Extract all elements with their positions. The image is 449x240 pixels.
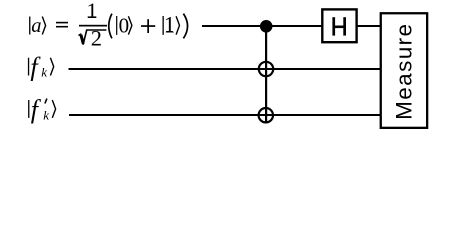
equals sign (56, 22, 68, 24)
svg-text:0: 0 (119, 13, 130, 37)
ket |0> : bar (116, 16, 117, 35)
label ket |f'_k> : bar (28, 100, 29, 118)
svg-text:2: 2 (91, 26, 102, 51)
open paren (109, 14, 112, 39)
wire control vertical line (265, 26, 267, 123)
plus sign (141, 25, 155, 27)
fraction bar (79, 25, 107, 27)
svg-text:a: a (31, 15, 41, 37)
close paren (183, 14, 187, 39)
wire q2 (bottom qubit line) (69, 114, 381, 116)
gate H letter: right stem (343, 17, 346, 35)
svg-text:1: 1 (87, 0, 98, 23)
CNOT target on q1 (259, 62, 273, 76)
gate H box U1 (322, 9, 356, 42)
label ket |f'_k> : prime (45, 99, 47, 104)
measure box (381, 13, 427, 128)
gate H letter: crossbar (334, 26, 344, 29)
wire q1 (middle qubit line) (69, 68, 382, 70)
wire q0 (top qubit line, label-to-H segment) (202, 25, 323, 27)
svg-text:k: k (43, 107, 49, 122)
gate H letter: left stem (332, 17, 335, 35)
svg-text:k: k (41, 65, 47, 80)
ket |0> : rangle (128, 16, 132, 34)
label ket |a> : rangle (42, 17, 45, 35)
label ket |a> : bar (29, 17, 30, 35)
label ket |f_k> : rangle (50, 58, 53, 76)
svg-text:f: f (31, 95, 42, 124)
sqrt radical sign (79, 30, 107, 45)
ket |1> : rangle (176, 16, 179, 34)
svg-text:f: f (30, 53, 41, 82)
CNOT target on q2 (259, 108, 273, 122)
label ket |f_k> : bar (28, 58, 29, 76)
ket |1> : bar (163, 16, 164, 35)
svg-text:1: 1 (164, 12, 176, 37)
label ket |f'_k> : rangle (52, 100, 55, 118)
wire q0 (H-to-Measure segment) (357, 25, 382, 27)
svg-text:Measure: Measure (391, 23, 416, 120)
control dot on q0 (260, 20, 273, 33)
